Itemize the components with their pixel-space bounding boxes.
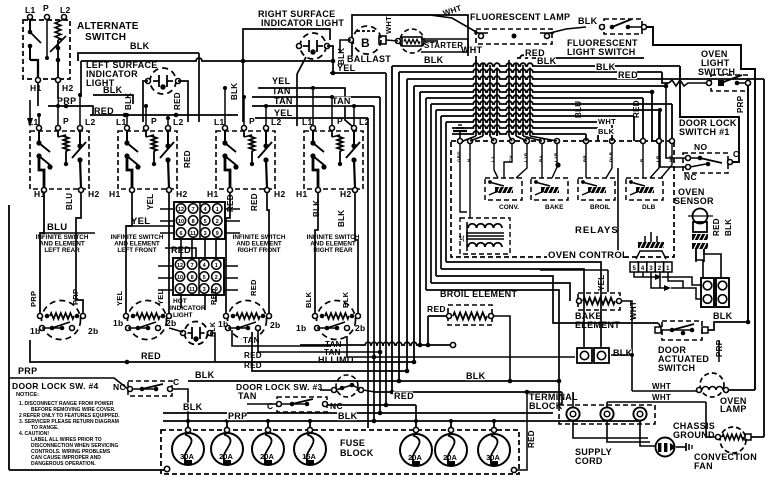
- wire bottom bus 413: [163, 411, 553, 416]
- element left front: [124, 301, 172, 340]
- svg-text:H2: H2: [88, 189, 99, 199]
- svg-text:L1: L1: [491, 156, 496, 162]
- svg-text:1b: 1b: [296, 323, 307, 333]
- alternate switch: [23, 3, 73, 93]
- svg-text:WHT: WHT: [461, 45, 483, 55]
- supply cord label: [575, 447, 612, 466]
- left surface indicator light lamp: [146, 68, 181, 94]
- wire row72 BLK: [399, 69, 707, 381]
- svg-text:20A: 20A: [219, 452, 233, 461]
- oven lamp label: [720, 396, 747, 414]
- label YEL bake: [597, 275, 606, 291]
- wire row98: [426, 95, 643, 139]
- fluorescent light switch: [600, 19, 647, 34]
- wire sw3 H2 drop: [267, 192, 269, 313]
- svg-text:YEL: YEL: [337, 63, 356, 73]
- svg-text:12: 12: [178, 207, 184, 213]
- label RED broil: [426, 304, 446, 314]
- right surface indicator light lamp: [297, 33, 330, 59]
- fluorescent lamp: [474, 29, 554, 44]
- wire sw3 left: [247, 403, 277, 405]
- wire BLK bus2: [93, 95, 133, 104]
- svg-text:BLU: BLU: [65, 193, 74, 210]
- svg-text:C: C: [267, 401, 273, 411]
- wire RED mid bus: [30, 340, 416, 364]
- svg-text:NB: NB: [669, 154, 674, 162]
- right surface indicator light label: [258, 9, 344, 28]
- svg-text:TAN: TAN: [272, 86, 291, 96]
- wire das left: [658, 323, 661, 327]
- wire fluor left lead: [400, 15, 478, 33]
- label WHT ol2: [651, 393, 671, 402]
- svg-text:6: 6: [178, 287, 181, 293]
- wire TAN 106: [252, 105, 374, 107]
- svg-text:BLK: BLK: [341, 291, 350, 308]
- wire RED low bus: [252, 332, 409, 373]
- svg-text:YEL: YEL: [146, 194, 155, 210]
- wire PRP bus: [48, 104, 93, 115]
- wire sw1 H2 drop: [76, 192, 83, 313]
- svg-text:LEFT FRONT: LEFT FRONT: [117, 247, 156, 254]
- convection fan label: [694, 452, 757, 471]
- relay BAKE: [531, 178, 568, 200]
- wire sub row 290: [426, 290, 559, 405]
- svg-text:H1: H1: [207, 189, 218, 199]
- label NO: [694, 142, 707, 152]
- svg-text:B: B: [361, 36, 370, 50]
- ballast label: [347, 54, 391, 64]
- label YEL 73: [337, 63, 356, 73]
- oven light switch label: [698, 49, 735, 77]
- label PRP bottomleft: [18, 366, 37, 376]
- wire row58 RED: [517, 55, 644, 58]
- terminal block: [559, 405, 655, 424]
- svg-text:BLK: BLK: [596, 62, 616, 72]
- label BLK vert sw4b: [337, 210, 346, 227]
- wire BLK bus top-left: [78, 53, 199, 122]
- svg-text:8: 8: [191, 275, 194, 281]
- wire el4 tan: [347, 336, 575, 359]
- wire el3 tan: [258, 330, 382, 354]
- svg-text:DLB: DLB: [609, 151, 614, 162]
- label RED conn right: [209, 288, 218, 305]
- svg-text:BLK: BLK: [304, 291, 313, 308]
- starter: [396, 29, 425, 53]
- element right rear: [313, 301, 361, 340]
- svg-text:C: C: [173, 377, 179, 387]
- wire ballast-starter: [386, 40, 398, 41]
- svg-text:NC: NC: [330, 401, 343, 411]
- door lock sw4: [128, 381, 173, 396]
- fluorescent lamp label: [470, 12, 570, 22]
- fuse 30A-2: [478, 421, 510, 466]
- wire bottom bus 392: [375, 390, 562, 395]
- wire YEL bus mid: [126, 225, 175, 227]
- infinite switch captions: [36, 234, 360, 254]
- wire row134: [452, 131, 586, 141]
- oven control board: [451, 141, 674, 257]
- svg-text:RED: RED: [141, 351, 161, 361]
- svg-text:20A: 20A: [260, 452, 274, 461]
- label 1b elem2: [113, 318, 124, 328]
- wire TAN106 drop: [373, 106, 375, 421]
- transformer: [459, 218, 510, 254]
- convection fan: [716, 427, 752, 453]
- relay BROIL label: [590, 204, 610, 211]
- wire conn1 stubs: [160, 209, 240, 233]
- svg-text:RED: RED: [209, 288, 218, 305]
- label BLK elem4: [304, 291, 350, 308]
- svg-text:7: 7: [192, 207, 195, 213]
- svg-text:INDICATOR LIGHT: INDICATOR LIGHT: [261, 18, 344, 28]
- label RED vert2: [632, 100, 641, 118]
- wire lamp2 diag: [297, 57, 306, 126]
- svg-text:BLK: BLK: [466, 371, 486, 381]
- label BLU vert sw: [65, 193, 74, 210]
- wire das drop: [718, 340, 720, 362]
- svg-text:H1: H1: [296, 189, 307, 199]
- wire sub row 276: [436, 276, 658, 323]
- svg-text:LR: LR: [656, 155, 661, 162]
- label BLK vert3: [337, 48, 346, 65]
- svg-text:BLK: BLK: [724, 219, 733, 236]
- svg-text:TAN: TAN: [238, 391, 257, 401]
- fuse 20A-4: [435, 421, 467, 466]
- svg-text:NC: NC: [113, 382, 126, 392]
- label BLK vert2: [230, 83, 239, 100]
- svg-text:PRP: PRP: [29, 291, 38, 307]
- label YEL 88: [272, 76, 291, 86]
- svg-text:TAN: TAN: [274, 96, 293, 106]
- svg-text:CONV.: CONV.: [499, 204, 519, 211]
- label BLU horiz: [47, 222, 67, 233]
- label RED vert sensor: [712, 218, 721, 236]
- terminal block label: [529, 392, 578, 411]
- board terminal labels: [457, 151, 674, 162]
- svg-text:BLK: BLK: [424, 55, 444, 65]
- label BLK hot: [210, 322, 217, 337]
- svg-text:BLK: BLK: [183, 402, 203, 412]
- fuse block corner terminal: [9, 466, 170, 471]
- svg-text:YEL: YEL: [156, 289, 165, 305]
- svg-text:L1: L1: [302, 117, 313, 127]
- svg-text:P: P: [337, 116, 343, 126]
- svg-text:WHT: WHT: [384, 16, 393, 34]
- label BLK mid: [103, 85, 123, 95]
- label TAN el4a: [324, 340, 342, 349]
- svg-text:RED: RED: [527, 430, 536, 448]
- label RED vert: [173, 92, 182, 110]
- svg-text:LIGHT SWITCH: LIGHT SWITCH: [567, 47, 636, 57]
- svg-text:L1: L1: [214, 117, 225, 127]
- oven sensor label: [674, 187, 714, 206]
- label PRP elem1b: [71, 289, 80, 305]
- svg-text:HOT: HOT: [173, 298, 187, 305]
- label WHT bake: [629, 301, 638, 320]
- svg-text:L2: L2: [173, 117, 184, 127]
- svg-text:L2: L2: [359, 117, 370, 127]
- label RED vert sw3a: [226, 194, 235, 212]
- wire row104: [431, 101, 672, 139]
- wire thermal bus: [611, 353, 634, 357]
- svg-text:10: 10: [177, 275, 183, 281]
- svg-text:N: N: [467, 158, 472, 162]
- relay DLB: [626, 178, 663, 200]
- svg-text:BLK: BLK: [598, 127, 615, 136]
- label TAN 106b: [331, 96, 351, 106]
- label OVEN CONTROL: [547, 250, 628, 261]
- svg-text:PRP: PRP: [736, 95, 745, 113]
- svg-text:RED: RED: [394, 391, 414, 401]
- label WHT small: [597, 117, 616, 126]
- board ground symbol: [453, 125, 467, 139]
- wire supply3: [640, 421, 655, 446]
- label RED vert tb: [527, 430, 536, 448]
- svg-text:H2: H2: [62, 83, 73, 93]
- wire knot verticals: [476, 60, 530, 136]
- svg-text:BA: BA: [539, 154, 544, 162]
- wire row128: [452, 125, 598, 141]
- label BLK 413: [182, 402, 203, 412]
- hi limit label: [318, 355, 356, 365]
- label PRP elem1a: [29, 291, 38, 307]
- door lock switch1 label: [679, 118, 737, 137]
- svg-text:30A: 30A: [180, 452, 194, 461]
- svg-text:2: 2: [215, 275, 218, 281]
- wire sw4 H1 drop: [315, 192, 318, 313]
- svg-text:8: 8: [192, 219, 195, 225]
- wire conn2 stubs: [158, 266, 238, 290]
- wire YEL118 drop: [367, 118, 369, 428]
- label C sw1: [733, 149, 739, 159]
- hot indicator label: [170, 298, 206, 319]
- right surface indicator light box: [243, 29, 330, 61]
- svg-text:2b: 2b: [166, 318, 177, 328]
- svg-text:DLB: DLB: [642, 204, 656, 211]
- svg-text:L1: L1: [25, 5, 36, 15]
- door lock sw4 label: [12, 381, 99, 391]
- label RED low2: [244, 361, 262, 370]
- svg-text:BR: BR: [583, 154, 588, 162]
- svg-text:INDICATOR: INDICATOR: [170, 305, 206, 312]
- door lock switch1: [683, 153, 733, 173]
- wire row116: [441, 113, 634, 141]
- svg-text:RIGHT FRONT: RIGHT FRONT: [237, 247, 280, 254]
- connector strip 1: [701, 278, 714, 307]
- svg-text:9: 9: [216, 231, 219, 237]
- label NC sw3: [330, 401, 343, 411]
- label BLK row72: [595, 62, 616, 72]
- svg-text:2b: 2b: [270, 320, 281, 330]
- svg-text:RED: RED: [250, 193, 259, 211]
- svg-text:1b: 1b: [113, 318, 124, 328]
- label RED 405: [393, 391, 414, 401]
- label BLK 421: [337, 411, 358, 421]
- svg-text:TAN: TAN: [332, 96, 351, 106]
- svg-text:P: P: [249, 116, 255, 126]
- wire bake right: [621, 301, 632, 391]
- wire switch feed stubs: [37, 86, 356, 126]
- svg-text:SENSOR: SENSOR: [674, 196, 714, 206]
- wire sw2 H1 drop: [126, 192, 132, 313]
- label PRP vert right: [736, 95, 745, 113]
- fuse block box: [161, 430, 519, 474]
- svg-text:BLK: BLK: [130, 41, 150, 51]
- fuse 20A-3: [400, 421, 432, 466]
- svg-text:6: 6: [179, 231, 182, 237]
- label C sw3: [267, 401, 273, 411]
- wire conn red lead: [165, 248, 196, 258]
- label 1b conn: [218, 319, 229, 329]
- svg-text:L2: L2: [85, 117, 96, 127]
- svg-text:H1: H1: [109, 189, 120, 199]
- svg-text:30A: 30A: [486, 453, 500, 462]
- svg-text:RED: RED: [618, 70, 638, 80]
- wire YEL73 drop: [385, 73, 387, 405]
- label WHT vert ballast: [384, 16, 393, 34]
- wire knot fanout: [463, 128, 557, 141]
- label BLK row66b: [536, 56, 557, 66]
- svg-text:BLOCK: BLOCK: [529, 401, 563, 411]
- label RED elem3: [249, 279, 258, 296]
- svg-text:OVEN CONTROL: OVEN CONTROL: [548, 250, 628, 261]
- wire RED bus: [90, 113, 238, 118]
- svg-text:1b: 1b: [30, 326, 41, 336]
- wire sensor leads: [696, 249, 721, 278]
- wire PRP bus bottom: [9, 378, 128, 389]
- infinite switch left front: [109, 116, 187, 199]
- svg-text:7: 7: [191, 263, 194, 269]
- label TAN 97: [272, 86, 291, 96]
- svg-text:ALTERNATE: ALTERNATE: [77, 21, 139, 32]
- svg-text:GRD: GRD: [457, 151, 462, 162]
- svg-text:GROUND: GROUND: [673, 430, 715, 440]
- svg-text:2b: 2b: [355, 323, 366, 333]
- ballast: [349, 26, 387, 54]
- svg-text:L1B: L1B: [554, 152, 559, 162]
- starter label: [421, 39, 468, 52]
- label RED row79: [617, 70, 638, 80]
- wire bottom bus 381: [188, 379, 561, 384]
- wire row92: [420, 89, 654, 345]
- label PRP das: [715, 339, 724, 357]
- svg-text:CV: CV: [509, 155, 514, 162]
- svg-text:L1: L1: [28, 117, 39, 127]
- label TAN sw3: [238, 391, 257, 401]
- svg-text:CORD: CORD: [575, 456, 603, 466]
- svg-text:5: 5: [204, 219, 207, 225]
- ballast box: [352, 15, 468, 56]
- label YEL elem2b: [156, 289, 165, 305]
- board terminals: [458, 139, 675, 144]
- svg-text:BLK: BLK: [210, 322, 217, 337]
- wire pin fanout: [634, 272, 701, 299]
- svg-text:5: 5: [203, 275, 206, 281]
- broil element label: [440, 289, 517, 299]
- svg-text:P: P: [43, 3, 49, 13]
- wire broil feed: [428, 316, 446, 345]
- label NC: [684, 172, 697, 182]
- svg-text:SWITCH #1: SWITCH #1: [679, 127, 730, 137]
- svg-text:20A: 20A: [443, 453, 457, 462]
- fuse 15A-1: [294, 421, 326, 465]
- wire broil right lead: [494, 316, 510, 381]
- svg-text:P: P: [63, 116, 69, 126]
- label WHT knot: [461, 45, 483, 62]
- svg-text:RED: RED: [427, 304, 446, 314]
- label PRP: [57, 96, 76, 106]
- wire left rail: [8, 205, 10, 470]
- fuse 20A-1: [211, 421, 243, 465]
- hi limit: [332, 375, 364, 397]
- relay BROIL: [578, 178, 615, 200]
- svg-text:BAKE: BAKE: [545, 204, 564, 211]
- label TAN el4b: [323, 348, 341, 357]
- label YEL elem2a: [115, 290, 124, 306]
- wire bottom bus 421: [163, 419, 640, 424]
- wire thermal tops: [584, 346, 601, 348]
- wire row110: [436, 107, 659, 139]
- door actuated switch label: [658, 345, 709, 373]
- wire L1 feed arrow: [27, 100, 33, 127]
- notice text: [16, 392, 120, 467]
- label RED vert sw3b: [250, 193, 259, 211]
- svg-text:RED: RED: [712, 218, 721, 236]
- svg-text:NO: NO: [694, 142, 707, 152]
- board connector wedge: [636, 242, 666, 259]
- svg-text:STARTER: STARTER: [424, 41, 463, 50]
- label YEL horiz: [131, 216, 150, 227]
- wire sw4 out: [172, 389, 188, 421]
- svg-text:BLK: BLK: [337, 210, 346, 227]
- thermal fuse 2: [594, 348, 609, 363]
- label RED: [94, 106, 114, 116]
- infinite switch right rear: [296, 116, 370, 199]
- wire oven light sw right drop: [747, 86, 749, 322]
- svg-text:FUSE: FUSE: [340, 438, 365, 448]
- label BLK top bus: [130, 41, 150, 51]
- element left rear: [38, 301, 86, 340]
- label WHT diag: [442, 3, 463, 17]
- hot indicator lamp: [181, 322, 213, 345]
- label BLK row66a: [423, 55, 444, 65]
- wire TAN 97: [252, 96, 380, 98]
- relay DLB label: [642, 204, 656, 211]
- wire supply1: [573, 421, 648, 438]
- svg-text:YEL: YEL: [597, 275, 606, 291]
- svg-text:20A: 20A: [408, 453, 422, 462]
- svg-text:1: 1: [215, 263, 218, 269]
- wire BLU bus: [40, 232, 95, 234]
- wire el3 tan2: [232, 330, 330, 346]
- wire hot ind feeds: [169, 328, 215, 362]
- wire sub-bundle verticals: [426, 98, 446, 290]
- label 2b elem1: [88, 326, 99, 336]
- label TAN el3: [242, 336, 260, 345]
- wire lamp2 right drop: [327, 46, 333, 73]
- door actuated switch: [655, 321, 708, 340]
- label YEL vert sw: [146, 194, 155, 210]
- oven light switch: [707, 75, 751, 91]
- label 2b elem4: [355, 323, 366, 333]
- wire WHT ol1: [632, 390, 697, 392]
- ground glyph: [676, 443, 692, 451]
- svg-text:P: P: [151, 116, 157, 126]
- wire lamp left lead: [143, 81, 148, 122]
- wire YEL 118: [255, 117, 368, 119]
- svg-text:H1: H1: [30, 83, 41, 93]
- svg-text:BLU: BLU: [574, 101, 583, 118]
